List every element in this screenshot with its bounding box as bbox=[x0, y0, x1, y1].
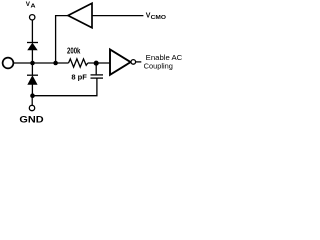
input terminal circle bbox=[3, 58, 14, 69]
svg-text:GND: GND bbox=[19, 114, 44, 124]
wire: capacitor top to input rail bbox=[95, 63, 97, 74]
wire: ground rail to capacitor bottom bbox=[33, 78, 97, 95]
inverter U2 bbox=[110, 49, 131, 74]
inverter U2 output bubble bbox=[131, 60, 136, 65]
svg-text:200k: 200k bbox=[67, 46, 81, 55]
diode D1 to VA (triangle) bbox=[28, 43, 37, 50]
wire: D1 anode to input rail bbox=[31, 50, 33, 63]
wire: D2 anode to ground rail bbox=[31, 84, 33, 95]
wire: VA terminal to diode D1 bbox=[31, 20, 33, 43]
wire: buffer input from VCMO bbox=[92, 15, 143, 17]
wire: input rail right segment bbox=[88, 62, 110, 64]
node: capacitor junction bbox=[94, 61, 99, 66]
wire: input rail to diode D2 cathode bbox=[31, 63, 33, 75]
wire: input rail left segment bbox=[14, 62, 69, 64]
svg-text:8 pF: 8 pF bbox=[71, 72, 87, 81]
GND terminal circle bbox=[29, 105, 34, 110]
diode D1 to VA (cathode bar) bbox=[27, 42, 38, 44]
op-amp buffer U1 (VCMO) bbox=[68, 3, 92, 27]
node: ESD clamp junction bbox=[30, 61, 35, 66]
node: ground rail junction bbox=[30, 93, 35, 98]
svg-text:A: A bbox=[31, 4, 36, 10]
capacitor C1 plates bbox=[91, 74, 104, 76]
svg-text:Coupling: Coupling bbox=[144, 61, 173, 70]
node: buffer feedback junction bbox=[53, 61, 58, 66]
diode D2 to GND (cathode bar) bbox=[27, 74, 38, 76]
wire: ground rail to GND terminal bbox=[31, 96, 33, 106]
svg-text:CMO: CMO bbox=[151, 15, 166, 21]
wire: buffer output corner to feedback bbox=[56, 16, 68, 63]
wire: inverter output stub bbox=[136, 61, 142, 63]
VA terminal circle bbox=[30, 15, 35, 20]
diode D2 to GND (triangle) bbox=[28, 76, 37, 84]
resistor R1 200k bbox=[69, 59, 88, 67]
